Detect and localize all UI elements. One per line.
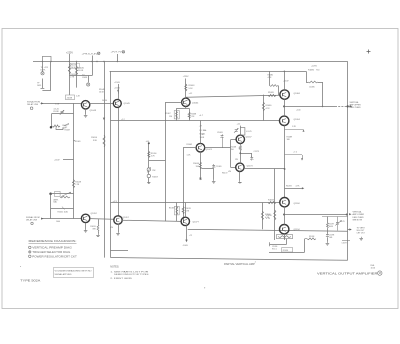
svg-text:R1062: R1062 xyxy=(187,144,193,146)
svg-text:4.7K: 4.7K xyxy=(265,217,270,219)
svg-text:C1097: C1097 xyxy=(342,243,347,245)
svg-text:R1064: R1064 xyxy=(193,163,200,165)
svg-text:10.5K: 10.5K xyxy=(99,91,105,93)
svg-text:Q1052: Q1052 xyxy=(91,213,98,215)
svg-text:+150V: +150V xyxy=(114,82,121,84)
svg-text:Q1094: Q1094 xyxy=(294,119,301,121)
svg-text:.001: .001 xyxy=(329,237,333,239)
svg-text:150: 150 xyxy=(169,116,172,118)
svg-text:R1055: R1055 xyxy=(90,226,96,228)
svg-text:+4.2: +4.2 xyxy=(237,124,241,126)
svg-text:R1063: R1063 xyxy=(189,85,196,87)
svg-text:R1068: R1068 xyxy=(191,114,197,116)
svg-text:Q1064: Q1064 xyxy=(192,102,199,104)
svg-text:DCPL: DCPL xyxy=(41,70,46,72)
svg-text:VERTICAL OUTPUT AMPLIFIER: VERTICAL OUTPUT AMPLIFIER xyxy=(317,271,379,275)
svg-text:R1049: R1049 xyxy=(75,141,81,143)
svg-text:1W: 1W xyxy=(235,159,238,161)
svg-text:4.5-25: 4.5-25 xyxy=(54,109,59,111)
svg-text:R1051 1040: R1051 1040 xyxy=(58,211,68,213)
svg-text:Q1074: Q1074 xyxy=(206,149,213,151)
svg-text:12: 12 xyxy=(202,134,204,136)
svg-text:C1175: C1175 xyxy=(254,151,259,153)
svg-text:R1056: R1056 xyxy=(151,153,157,155)
svg-text:R1093: R1093 xyxy=(286,186,292,188)
svg-text:+72: +72 xyxy=(189,235,192,237)
svg-text:TYPE 502A: TYPE 502A xyxy=(20,279,40,283)
svg-text:NOTES:: NOTES: xyxy=(110,267,119,269)
svg-text:R1083: R1083 xyxy=(268,92,274,94)
svg-text:C1038: C1038 xyxy=(53,111,59,113)
svg-text:C1069: C1069 xyxy=(216,166,222,168)
svg-text:DL 50: DL 50 xyxy=(102,100,107,102)
svg-text:R1050: R1050 xyxy=(91,137,98,139)
svg-text:Q1184: Q1184 xyxy=(294,203,301,205)
svg-text:Q1077: Q1077 xyxy=(193,222,200,224)
svg-text:R1040: R1040 xyxy=(78,68,85,70)
svg-text:R1080: R1080 xyxy=(266,105,273,107)
svg-text:1035: 1035 xyxy=(37,85,41,87)
svg-text:R1046: R1046 xyxy=(99,89,105,91)
svg-text:R1048: R1048 xyxy=(75,182,81,184)
svg-text:9.1K: 9.1K xyxy=(189,88,194,90)
svg-text:+47.5: +47.5 xyxy=(113,201,118,203)
svg-text:Q1084: Q1084 xyxy=(294,93,301,95)
svg-text:+150V: +150V xyxy=(114,88,121,90)
svg-text:Q1043: Q1043 xyxy=(90,110,97,112)
svg-text:150: 150 xyxy=(231,149,234,151)
svg-text:+7.2: +7.2 xyxy=(293,152,297,154)
svg-text:R1098: R1098 xyxy=(309,236,314,238)
svg-text:REFERENCE DIAGRAMS:: REFERENCE DIAGRAMS: xyxy=(29,240,77,243)
svg-text:4.5-25: 4.5-25 xyxy=(340,221,345,223)
svg-text:TO +225: TO +225 xyxy=(41,67,48,69)
svg-text:CRT CKT: CRT CKT xyxy=(357,233,366,235)
svg-text:4.5-25: 4.5-25 xyxy=(246,131,251,133)
svg-text:.001: .001 xyxy=(62,128,66,130)
svg-text:R1069: R1069 xyxy=(169,208,175,210)
svg-text:2. FIRST GRID: 2. FIRST GRID xyxy=(110,278,132,280)
svg-text:Q1057: Q1057 xyxy=(123,217,130,219)
svg-text:J1038: J1038 xyxy=(82,77,87,79)
svg-text:+225V: +225V xyxy=(183,76,190,78)
svg-text:+150V: +150V xyxy=(54,159,60,161)
svg-text:Q1167: Q1167 xyxy=(246,137,253,139)
svg-text:C1085: C1085 xyxy=(309,86,315,88)
svg-text:R1096: R1096 xyxy=(283,250,288,252)
svg-text:SEE NOTE: SEE NOTE xyxy=(353,219,363,221)
svg-text:+77: +77 xyxy=(199,126,202,128)
svg-text:4.7K: 4.7K xyxy=(266,108,271,110)
svg-text:R1089: R1089 xyxy=(287,136,293,138)
svg-text:C1063: C1063 xyxy=(217,132,223,134)
svg-text:J1038: J1038 xyxy=(67,97,73,99)
svg-text:SEMICONDUCTOR TYPES: SEMICONDUCTOR TYPES xyxy=(114,274,149,276)
svg-text:R1037: R1037 xyxy=(65,130,71,132)
svg-text:R1183: R1183 xyxy=(268,200,275,202)
svg-text:R1197: R1197 xyxy=(329,223,334,225)
svg-text:W 1.5: W 1.5 xyxy=(272,249,277,251)
svg-text:C1043: C1043 xyxy=(62,125,67,127)
svg-text:Q1194: Q1194 xyxy=(294,229,301,231)
svg-text:1040: 1040 xyxy=(56,221,60,223)
svg-text:10.5K: 10.5K xyxy=(78,70,84,72)
svg-text:SIG OUT: SIG OUT xyxy=(357,230,366,232)
svg-text:R1172: R1172 xyxy=(222,173,227,175)
svg-text:R1168: R1168 xyxy=(231,146,236,148)
svg-text:TO VERT: TO VERT xyxy=(357,227,366,229)
svg-text:3.9K: 3.9K xyxy=(93,140,98,142)
svg-text:R1035: R1035 xyxy=(71,65,77,67)
svg-text:R1070: R1070 xyxy=(185,208,191,210)
svg-text:+P27.7V: +P27.7V xyxy=(111,51,123,53)
svg-text:R1180: R1180 xyxy=(265,214,272,216)
svg-text:Q1045: Q1045 xyxy=(124,103,131,105)
svg-text:C1198: C1198 xyxy=(329,235,334,237)
svg-text:R1086: R1086 xyxy=(308,69,315,71)
svg-text:100K: 100K xyxy=(329,226,334,228)
svg-text:-100V: -100V xyxy=(183,245,189,247)
svg-text:2: 2 xyxy=(255,262,256,264)
svg-text:C1096: C1096 xyxy=(272,246,277,248)
svg-text:R1081: R1081 xyxy=(268,75,274,77)
svg-text:+P8.6-9.4V: +P8.6-9.4V xyxy=(82,53,99,55)
svg-text:+150V: +150V xyxy=(283,81,289,83)
svg-text:Q1173: Q1173 xyxy=(247,166,254,168)
svg-text:+4.2: +4.2 xyxy=(189,93,193,95)
svg-text:+8.6: +8.6 xyxy=(146,141,150,143)
svg-text:R1059: R1059 xyxy=(152,177,158,179)
svg-text:R1067: R1067 xyxy=(165,113,171,115)
svg-text:+225V: +225V xyxy=(311,66,318,68)
